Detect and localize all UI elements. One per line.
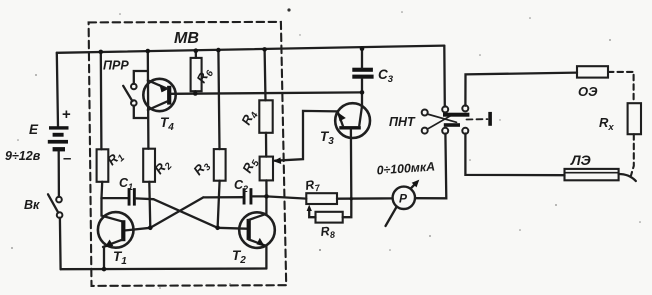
svg-text:+: + bbox=[62, 106, 71, 123]
meter P circle bbox=[393, 187, 415, 209]
wire R7 right to meter bbox=[337, 197, 393, 200]
wire R4 column from rail bbox=[263, 49, 266, 100]
transistor T1 emitter with arrow bbox=[103, 240, 123, 247]
switch PNT lever 1 bbox=[427, 114, 456, 122]
resistor R5 (adjustable) bbox=[260, 157, 273, 181]
wire C2 left lead bbox=[203, 196, 243, 198]
switch Vk lever bbox=[48, 194, 58, 212]
transistor T1 circle bbox=[98, 212, 134, 248]
wire R8 shunt loop right bbox=[343, 199, 352, 218]
svg-text:Е: Е bbox=[29, 122, 39, 137]
wire C3 top lead bbox=[361, 49, 363, 68]
wire top supply rail bbox=[57, 46, 445, 53]
transistor T3 base bar bbox=[339, 126, 361, 129]
wire PNT to LE element bbox=[465, 134, 564, 176]
switch PNT mechanical link dashed bbox=[467, 118, 488, 120]
wire bottom emitter rail bbox=[61, 267, 267, 270]
wire R5 bottom to C2 node bbox=[265, 180, 267, 196]
wire PRR bottom branch bbox=[134, 106, 148, 118]
wire PRR top branch bbox=[134, 71, 148, 84]
wire T1 emitter to rail bbox=[103, 247, 105, 269]
switch PNT lever 2 bbox=[427, 114, 453, 129]
transistor T3 emitter with arrow bbox=[338, 112, 343, 126]
svg-text:ПРР: ПРР bbox=[103, 59, 129, 73]
svg-text:9÷12в: 9÷12в bbox=[5, 149, 41, 163]
wire C1 right lead bbox=[136, 197, 154, 200]
wire rail down to PNT top-left contact bbox=[443, 46, 446, 107]
transistor T4 base bar bbox=[167, 86, 171, 105]
wire T1 collector lead bbox=[102, 198, 122, 221]
resistor R1 bbox=[97, 149, 109, 182]
switch Vk contacts bbox=[56, 197, 62, 203]
element LE body bbox=[565, 169, 619, 180]
transistor T2 base bar bbox=[247, 219, 251, 240]
wire R5 wiper to T3 emitter bbox=[275, 111, 338, 161]
wire T1 base lead bbox=[125, 228, 150, 231]
wire T2 base lead bbox=[218, 227, 247, 230]
battery E plates bbox=[48, 126, 69, 151]
wire R6 bottom lead bbox=[194, 91, 196, 93]
svg-text:МВ: МВ bbox=[174, 30, 199, 47]
wire R2 bottom to T1 base node bbox=[149, 182, 150, 228]
wire cross-coupling C1 to T2 base bbox=[154, 199, 218, 228]
wire Vk down to bottom rail bbox=[59, 218, 62, 269]
transistor T4 circle bbox=[143, 79, 175, 111]
svg-text:–: – bbox=[63, 150, 71, 167]
resistor R2 bbox=[143, 149, 155, 182]
svg-text:ОЭ: ОЭ bbox=[578, 84, 598, 99]
transistor T2 collector bbox=[249, 196, 267, 220]
wire C1 left lead bbox=[102, 197, 129, 199]
transistor T2 emitter with arrow bbox=[249, 240, 267, 246]
resistor R4 bbox=[259, 100, 272, 133]
wire R6 top lead bbox=[195, 51, 197, 58]
resistor R3 bbox=[214, 149, 226, 181]
wire T3 base down to meter line bbox=[350, 130, 353, 199]
svg-text:ЛЭ: ЛЭ bbox=[570, 152, 591, 168]
wire T2 emitter to rail bbox=[265, 246, 267, 269]
element LE curved right lead bbox=[619, 174, 636, 181]
svg-text:ПНТ: ПНТ bbox=[389, 115, 416, 129]
wire R1 bottom to C1 node bbox=[100, 182, 103, 198]
switch PNT contact bar lower bbox=[444, 123, 460, 127]
meter needle upper segment with arrowhead bbox=[411, 182, 417, 188]
switch PNT contact bar upper bbox=[443, 113, 469, 117]
svg-text:Вк: Вк bbox=[24, 198, 40, 212]
dashed wire Rx down to LE bbox=[631, 134, 634, 175]
switch PRR lever bbox=[123, 86, 132, 101]
meter needle lower segment bbox=[386, 208, 397, 227]
resistor R6 bbox=[191, 58, 202, 91]
resistor R7 bbox=[306, 193, 337, 204]
wire meter line left section bbox=[267, 196, 307, 198]
wire C2 right lead bbox=[252, 195, 266, 197]
wire PNT to OE element bbox=[465, 73, 577, 106]
transistor T3 collector bbox=[359, 92, 362, 126]
wire T4-R2 column bbox=[147, 51, 150, 149]
capacitor C3 bbox=[352, 68, 373, 79]
transistor T2 circle bbox=[239, 212, 275, 248]
wire R8 left with arrow to R7 bbox=[309, 209, 315, 218]
wire cross-coupling C2 to T1 base bbox=[150, 197, 203, 227]
dashed enclosure MB box bbox=[89, 22, 287, 286]
switch PNT contacts bbox=[442, 106, 448, 112]
capacitor C2 bbox=[243, 188, 253, 204]
wire R1 column from rail bbox=[100, 52, 103, 149]
dashed wire OE to Rx bbox=[608, 72, 634, 103]
transistor T4 collector bbox=[148, 102, 167, 110]
capacitor C1 bbox=[128, 188, 136, 206]
transistor T3 circle bbox=[335, 103, 370, 138]
wire battery plus lead up bbox=[57, 53, 58, 127]
wire R3 bottom to T2 base node bbox=[218, 181, 220, 228]
resistor R8 bbox=[316, 212, 343, 223]
wire meter right to PNT corner bbox=[415, 134, 446, 199]
wire C3 bottom lead to base line bbox=[361, 79, 363, 93]
transistor T4 emitter with arrow bbox=[148, 80, 167, 88]
wire battery minus lead down bbox=[58, 151, 61, 196]
transistor T1 base bar bbox=[121, 220, 125, 241]
wire R4 to R5 link bbox=[265, 133, 268, 157]
element OE bbox=[577, 66, 608, 77]
svg-text:Р: Р bbox=[399, 192, 408, 206]
resistor Rx bbox=[628, 103, 641, 134]
wire R3 column from rail bbox=[218, 50, 219, 149]
switch PRR contacts bbox=[131, 84, 137, 90]
wire T4 base line to C3 node bbox=[171, 92, 362, 93]
